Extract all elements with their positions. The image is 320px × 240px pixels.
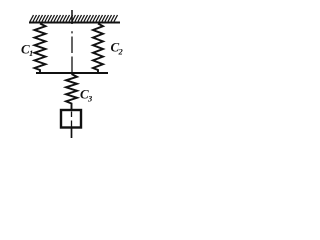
ceiling line [29, 22, 120, 24]
center axis dash-dot line [71, 31, 73, 72]
spring C3 [66, 74, 77, 110]
ceiling hatching [30, 15, 118, 22]
spring C2 [93, 24, 103, 73]
axis through mass block [71, 112, 73, 127]
connecting bar [36, 72, 108, 74]
svg-text:1: 1 [29, 48, 33, 58]
svg-text:2: 2 [118, 47, 124, 57]
svg-text:3: 3 [87, 94, 93, 104]
axis tail below mass [71, 128, 73, 139]
mass block [61, 110, 81, 128]
center axis tick above ceiling [71, 10, 73, 24]
spring C1 [35, 24, 46, 73]
